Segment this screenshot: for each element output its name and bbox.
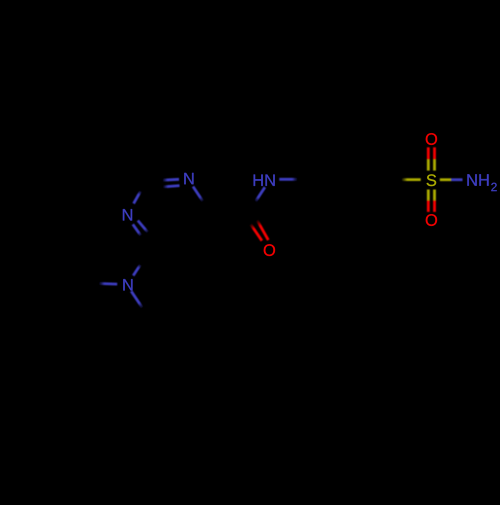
bond N9-C11 NH to phenyl (blue half) xyxy=(279,178,297,181)
bond N1=C2 inner line (blue half) xyxy=(163,186,180,187)
atom label N12 sulfonamide NH xyxy=(467,174,488,185)
bond S=O14 left line red half xyxy=(427,200,430,212)
bond S-N12 blue half xyxy=(451,178,462,181)
bond S=O14 right line red half xyxy=(433,200,436,212)
bond N1-C6 (blue half) xyxy=(193,187,203,202)
bond S=O13 right line red half xyxy=(433,147,436,159)
atom label N9 amide HN xyxy=(254,175,275,186)
bond S=O13 left line yellow half xyxy=(427,159,430,170)
bond C4-N7 dimethylamino (blue half) xyxy=(133,265,140,276)
bond N1=C2 main line (blue half) xyxy=(163,178,180,182)
bond S=O14 right line yellow half xyxy=(433,190,436,201)
atom label O13 sulfonyl oxygen top xyxy=(426,133,437,145)
bond N3=C4 main line (blue half) xyxy=(133,224,141,236)
bond N7-CH3 lower right (blue half) xyxy=(131,291,142,308)
bond S=O14 left line yellow half xyxy=(427,190,430,201)
atom label N1 pyrimidine ring nitrogen (top right) xyxy=(184,173,193,184)
bond C8=O10 carbonyl line 2 (red half) xyxy=(251,224,262,241)
atom label O14 sulfonyl oxygen bottom xyxy=(426,214,437,226)
atom label S sulfonamide sulfur xyxy=(427,174,437,186)
bond Cpara-S (yellow half) xyxy=(402,178,421,181)
bond C8-N9 amide C to NH (blue half) xyxy=(255,187,265,202)
bond S=O13 left line red half xyxy=(427,147,430,159)
bond C8=O10 carbonyl line 1 (red half) xyxy=(257,220,268,240)
bond C2-N3 (blue half) xyxy=(134,191,141,204)
atom label N7 dimethylamino nitrogen xyxy=(123,279,132,290)
bond N3=C4 inner line (blue half) xyxy=(138,221,148,233)
bond S=O13 right line yellow half xyxy=(433,159,436,170)
atom label O10 carbonyl oxygen xyxy=(264,244,275,256)
atom label N12 NH2 subscript 2 xyxy=(491,183,496,191)
bond S-N12 yellow half xyxy=(440,178,451,181)
atom label N3 pyrimidine ring nitrogen (left) xyxy=(123,209,132,220)
bond N7-CH3 left (blue half) xyxy=(99,282,117,285)
